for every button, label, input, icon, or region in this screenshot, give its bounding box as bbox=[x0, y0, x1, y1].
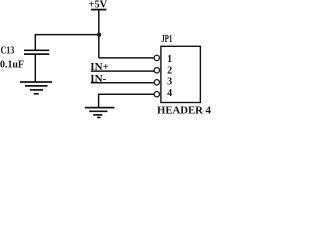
svg-text:0.1uF: 0.1uF bbox=[0, 59, 24, 70]
power +5V bbox=[89, 0, 108, 11]
connector JP1 bbox=[161, 34, 201, 102]
node IN- bbox=[90, 74, 106, 85]
junction bbox=[97, 33, 101, 37]
svg-text:JP1: JP1 bbox=[161, 34, 172, 45]
wire IN+ to pin 2 bbox=[91, 70, 154, 72]
wire to capacitor bbox=[35, 34, 99, 36]
wire pin 4 bbox=[99, 93, 155, 95]
node IN+ bbox=[90, 62, 109, 73]
svg-text:4: 4 bbox=[167, 88, 172, 99]
ground right bbox=[85, 108, 115, 118]
svg-text:HEADER 4: HEADER 4 bbox=[157, 105, 211, 116]
wire capacitor bottom lead bbox=[34, 54, 36, 82]
svg-text:C13: C13 bbox=[1, 46, 15, 57]
svg-text:3: 3 bbox=[167, 77, 172, 88]
wire ground stem right bbox=[98, 94, 100, 108]
wire pin 1 bbox=[99, 57, 154, 59]
wire capacitor top lead bbox=[34, 34, 36, 50]
pin 4 bbox=[154, 88, 172, 99]
svg-text:1: 1 bbox=[167, 54, 172, 65]
svg-text:2: 2 bbox=[167, 65, 172, 76]
pin 2 bbox=[154, 65, 172, 76]
wire IN- to pin 3 bbox=[91, 82, 154, 84]
pin 3 bbox=[154, 77, 172, 88]
capacitor C13 bbox=[0, 46, 49, 71]
wire +5V stem bbox=[98, 10, 100, 58]
pin 1 bbox=[154, 54, 172, 65]
ground left bbox=[20, 82, 52, 94]
